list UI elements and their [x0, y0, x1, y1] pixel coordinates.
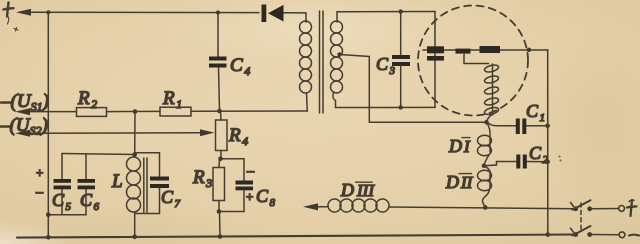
capacitor C1 [487, 119, 548, 135]
svg-text:III: III [356, 181, 375, 200]
wire left vertical [47, 12, 49, 237]
head block middle [456, 49, 471, 54]
node R4-R3 junction [218, 157, 223, 162]
svg-text:+: + [246, 189, 253, 204]
node R2-R1 junction [133, 109, 138, 114]
resistor R4 [216, 111, 228, 159]
transformer core [319, 11, 321, 113]
capacitor C7 [135, 153, 169, 214]
node C3 bottom [399, 105, 403, 109]
svg-text:D: D [445, 172, 459, 192]
wire top bus [28, 11, 259, 13]
svg-text:+: + [36, 165, 43, 180]
node bus left vertical [46, 235, 51, 240]
wire DIII left with arrow [316, 206, 328, 208]
node R3 bottom junction [217, 209, 222, 214]
inductor L [127, 157, 141, 212]
capacitor C8 electrolytic [219, 159, 253, 212]
svg-text:–: – [35, 185, 44, 200]
arrow Us2 right into R4 [200, 129, 215, 136]
inductor L core [143, 158, 145, 212]
node head coil bottom [484, 120, 489, 125]
node DII bottom [483, 205, 488, 210]
capacitor C5 electrolytic [54, 154, 72, 215]
node C1 right [545, 123, 550, 128]
wire head line [423, 49, 548, 51]
head block right [480, 46, 501, 53]
svg-text:D: D [448, 136, 462, 156]
wire top right [337, 11, 435, 13]
switch S1 top [571, 200, 625, 211]
wire head vertical left [434, 12, 436, 108]
transformer T1 primary [300, 13, 312, 111]
node on head line [527, 48, 531, 52]
annotation 4 right [627, 200, 637, 216]
annotation 4 top-left [4, 3, 19, 32]
inductor D III [328, 199, 389, 212]
arrow Us1 [15, 108, 30, 115]
node C4-R4 junction [217, 109, 222, 114]
node bus L [132, 235, 137, 240]
wire head stub to coil [464, 54, 489, 63]
switch S1 bottom [571, 226, 625, 238]
wire Us2 line [27, 132, 201, 134]
head coil [484, 64, 499, 123]
dashed circle head assembly [418, 6, 528, 116]
wire L bottom to bus [134, 212, 136, 237]
wire DIII right to switch [389, 207, 576, 209]
wire C5 C6 top [62, 154, 135, 155]
inductor D II [478, 166, 492, 207]
resistor R1 [160, 107, 191, 116]
head block left upper [427, 46, 444, 53]
node secondary tap [337, 52, 341, 56]
resistor R2 [77, 108, 107, 117]
svg-text:L: L [111, 171, 123, 192]
capacitor C4 [209, 13, 227, 112]
wire C5 C6 bottom [48, 214, 86, 216]
svg-text:II: II [460, 173, 474, 192]
capacitor C3 [392, 12, 410, 108]
head block left lower [427, 56, 444, 61]
diode V1 [262, 5, 284, 23]
wire R3 bottom to bus [219, 212, 222, 237]
annotation dash bottom right [629, 234, 639, 237]
node right bus bottom [546, 232, 551, 237]
capacitor C6 [78, 154, 96, 215]
arrow top-left [16, 9, 31, 16]
svg-text:–: – [246, 164, 255, 179]
node Us1 to C5 branch [134, 112, 136, 155]
ground bus [17, 235, 576, 238]
wire right bus [547, 50, 549, 235]
node bus R3 [218, 234, 223, 239]
node top-left [46, 10, 50, 14]
wire secondary bottom [336, 106, 436, 108]
node C5 bottom [46, 212, 51, 217]
resistor R3 [213, 159, 225, 212]
svg-text:D: D [340, 180, 354, 200]
transformer T1 secondary [331, 12, 343, 108]
wire Us1 line [27, 111, 76, 113]
switch linkage dashed [580, 203, 582, 229]
arrow Us2 left [15, 130, 30, 137]
node DI DII junction [482, 163, 487, 168]
capacitor C2 [484, 155, 548, 169]
inductor D I [478, 122, 492, 165]
node C2 right [545, 159, 550, 164]
node C3 top [399, 9, 403, 13]
wire tap to head [340, 55, 487, 123]
